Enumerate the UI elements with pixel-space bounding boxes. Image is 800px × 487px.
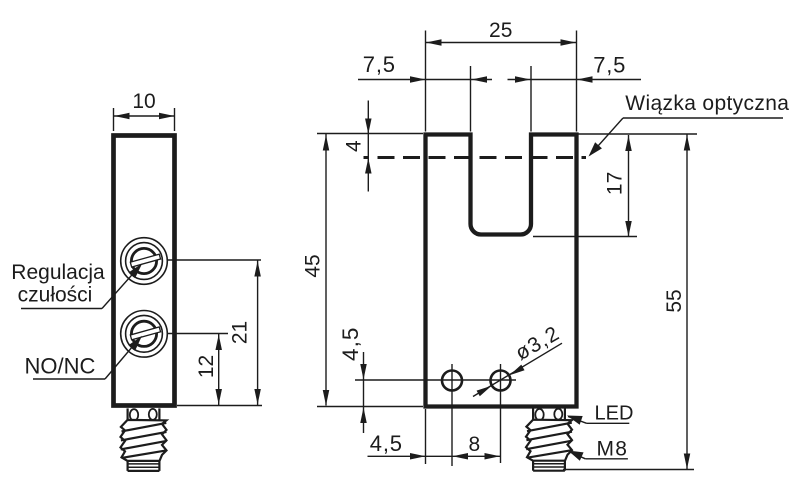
svg-text:8: 8 <box>469 433 481 456</box>
svg-text:Regulacja: Regulacja <box>11 261 105 284</box>
svg-text:Wiązka optyczna: Wiązka optyczna <box>625 92 789 115</box>
svg-text:12: 12 <box>195 355 218 378</box>
svg-text:LED: LED <box>595 402 634 424</box>
svg-text:4,5: 4,5 <box>338 327 363 361</box>
svg-text:czułości: czułości <box>18 284 93 307</box>
svg-text:17: 17 <box>604 172 627 195</box>
svg-text:25: 25 <box>489 19 512 42</box>
svg-text:4: 4 <box>342 140 365 152</box>
svg-text:21: 21 <box>229 321 252 344</box>
svg-text:7,5: 7,5 <box>593 52 626 77</box>
svg-text:NO/NC: NO/NC <box>25 354 96 379</box>
svg-text:10: 10 <box>132 90 155 113</box>
svg-text:55: 55 <box>663 289 686 312</box>
svg-text:45: 45 <box>302 254 325 277</box>
svg-text:4,5: 4,5 <box>370 431 403 456</box>
svg-text:7,5: 7,5 <box>363 52 396 77</box>
svg-text:M8: M8 <box>597 438 629 461</box>
